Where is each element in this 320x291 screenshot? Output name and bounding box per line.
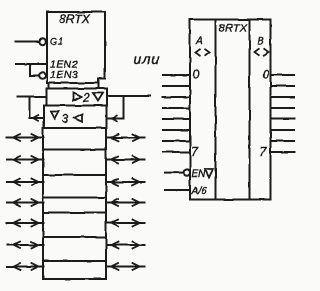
wire B-side stub from driver 2 <box>107 95 150 97</box>
pin EN inversion bubble <box>184 169 190 175</box>
wire B-side junction down to driver 3 <box>123 96 125 119</box>
control block U1 outline (left symbol, common control) <box>47 12 105 83</box>
svg-text:8RTX: 8RTX <box>59 12 90 26</box>
port B stub wires <box>271 75 295 152</box>
port A bit4 bidirectional wire <box>7 199 44 206</box>
port B bit2 bidirectional wire <box>106 156 145 163</box>
port A bit7 bidirectional wire <box>7 263 44 270</box>
svg-text:0: 0 <box>263 70 270 82</box>
port B bidirectional chevron left <box>255 48 260 55</box>
driver 2 enable down-triangle <box>93 93 103 101</box>
svg-text:1EN3: 1EN3 <box>50 69 78 81</box>
wire A-side junction down to driver 3 <box>29 97 31 118</box>
svg-text:A: A <box>196 36 204 47</box>
pin G1 wire <box>16 41 40 43</box>
pin 1EN3 inversion bubble <box>39 72 45 78</box>
port A bit1 bidirectional wire <box>7 134 44 141</box>
port B bit6 bidirectional wire <box>106 242 145 249</box>
port B bit4 bidirectional wire <box>106 199 145 206</box>
IEC symbol U2 outline <box>190 20 271 200</box>
port B bit7 bidirectional wire <box>106 263 145 270</box>
section divider A <box>215 20 217 200</box>
svg-text:0: 0 <box>193 70 200 82</box>
bit cell dividers <box>43 150 106 262</box>
svg-text:A/6: A/6 <box>191 186 207 197</box>
driver 3 enable down-triangle <box>51 112 59 119</box>
EN enable down-triangle <box>205 169 213 178</box>
connector tab left between control block and array <box>48 83 50 89</box>
port A bit2 bidirectional wire <box>7 156 44 163</box>
port B bit5 bidirectional wire <box>106 220 145 227</box>
svg-text:8RTX: 8RTX <box>219 22 248 34</box>
svg-text:EN: EN <box>192 169 207 180</box>
port B bidirectional chevron right <box>264 48 269 55</box>
pin EN wire <box>165 172 183 174</box>
svg-text:2: 2 <box>82 91 90 105</box>
port A bit3 bidirectional wire <box>7 179 44 186</box>
section divider B <box>249 20 251 200</box>
arrowhead left on driver 3 A-side wire <box>33 115 39 122</box>
driver 2 right-direction triangle <box>74 93 82 101</box>
driver row 2 outline (A to B buffer) <box>47 89 108 106</box>
wire A-side stub into driver 2 <box>17 96 47 98</box>
arrowhead left on driver 3 B-side wire <box>112 115 118 122</box>
driver row 3 outline (B to A buffer) <box>44 106 107 129</box>
svg-text:G1: G1 <box>50 37 64 47</box>
svg-text:или: или <box>134 51 160 67</box>
svg-text:B: B <box>257 36 264 47</box>
wire branch from 1EN2 down to 1EN3 bubble <box>30 64 38 76</box>
pin G1 inversion bubble <box>39 38 45 44</box>
svg-text:3: 3 <box>62 112 69 126</box>
driver 3 left-direction triangle <box>74 114 82 122</box>
pin A/B select wire <box>165 189 190 191</box>
svg-text:7: 7 <box>191 145 199 159</box>
wire from B-side into driver 3 <box>107 118 124 120</box>
port B bit3 bidirectional wire <box>106 179 145 186</box>
port B bit1 bidirectional wire <box>106 134 145 141</box>
svg-text:7: 7 <box>260 145 268 159</box>
port A bit6 bidirectional wire <box>7 242 44 249</box>
port A stub wires <box>163 75 190 152</box>
port A bidirectional chevron right <box>205 49 210 56</box>
connector tab right between control block and array <box>98 79 100 89</box>
port A bidirectional chevron left <box>196 49 201 56</box>
wire driver 3 output to A-side <box>30 117 45 119</box>
pin 1EN2 wire <box>16 63 47 65</box>
bit cell array outline <box>43 128 106 279</box>
port A bit5 bidirectional wire <box>7 220 44 227</box>
